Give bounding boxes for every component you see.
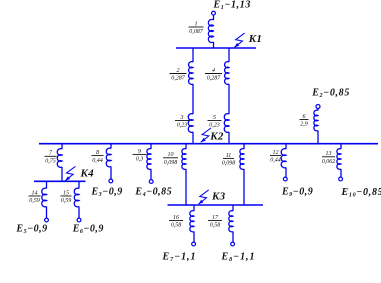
svg-text:E6−0,9: E6−0,9	[72, 224, 104, 236]
svg-text:0,44: 0,44	[92, 157, 103, 164]
svg-text:3: 3	[180, 115, 184, 121]
svg-text:0,23: 0,23	[209, 123, 220, 129]
svg-text:16: 16	[173, 215, 179, 221]
svg-text:0,59: 0,59	[29, 198, 40, 204]
svg-text:K1: K1	[248, 33, 262, 45]
svg-text:2: 2	[177, 68, 180, 74]
svg-text:0,098: 0,098	[164, 160, 178, 166]
svg-text:14: 14	[32, 189, 38, 196]
svg-text:E7−1,1: E7−1,1	[162, 252, 197, 264]
svg-text:0,44: 0,44	[270, 157, 281, 164]
svg-text:E4−0,85: E4−0,85	[134, 187, 172, 199]
svg-text:0,75: 0,75	[45, 159, 56, 165]
svg-text:12: 12	[273, 150, 279, 156]
svg-text:13: 13	[326, 151, 332, 157]
svg-text:10: 10	[168, 152, 174, 158]
svg-text:9: 9	[138, 149, 141, 155]
svg-text:0,58: 0,58	[171, 223, 182, 229]
svg-text:0,287: 0,287	[171, 76, 186, 82]
svg-text:0,23: 0,23	[177, 123, 188, 129]
svg-text:0,58: 0,58	[210, 223, 221, 229]
svg-text:E5−0,9: E5−0,9	[15, 224, 47, 236]
svg-text:4: 4	[212, 67, 215, 74]
svg-text:K2: K2	[209, 131, 224, 143]
svg-text:K3: K3	[211, 191, 226, 203]
svg-text:0,59: 0,59	[61, 198, 72, 204]
svg-text:0,087: 0,087	[189, 29, 204, 35]
svg-text:11: 11	[226, 153, 232, 159]
svg-text:15: 15	[63, 190, 69, 196]
svg-text:E9−0,9: E9−0,9	[281, 187, 313, 199]
svg-text:0,098: 0,098	[222, 161, 236, 167]
svg-text:2,9: 2,9	[300, 122, 308, 128]
svg-text:E1−1,13: E1−1,13	[213, 0, 251, 11]
svg-text:0,3: 0,3	[136, 157, 144, 163]
svg-text:E2−0,85: E2−0,85	[311, 88, 350, 100]
svg-text:5: 5	[213, 115, 216, 121]
svg-text:1: 1	[195, 21, 198, 27]
svg-text:E8−1,1: E8−1,1	[221, 252, 256, 264]
svg-text:17: 17	[212, 215, 219, 221]
svg-text:0,062: 0,062	[322, 159, 336, 165]
svg-text:E3−0,9: E3−0,9	[91, 187, 123, 199]
svg-text:6: 6	[303, 114, 306, 120]
svg-text:8: 8	[96, 150, 99, 156]
svg-text:0,287: 0,287	[207, 76, 222, 82]
svg-text:E10−0,85: E10−0,85	[341, 187, 381, 199]
svg-text:K4: K4	[80, 167, 95, 179]
